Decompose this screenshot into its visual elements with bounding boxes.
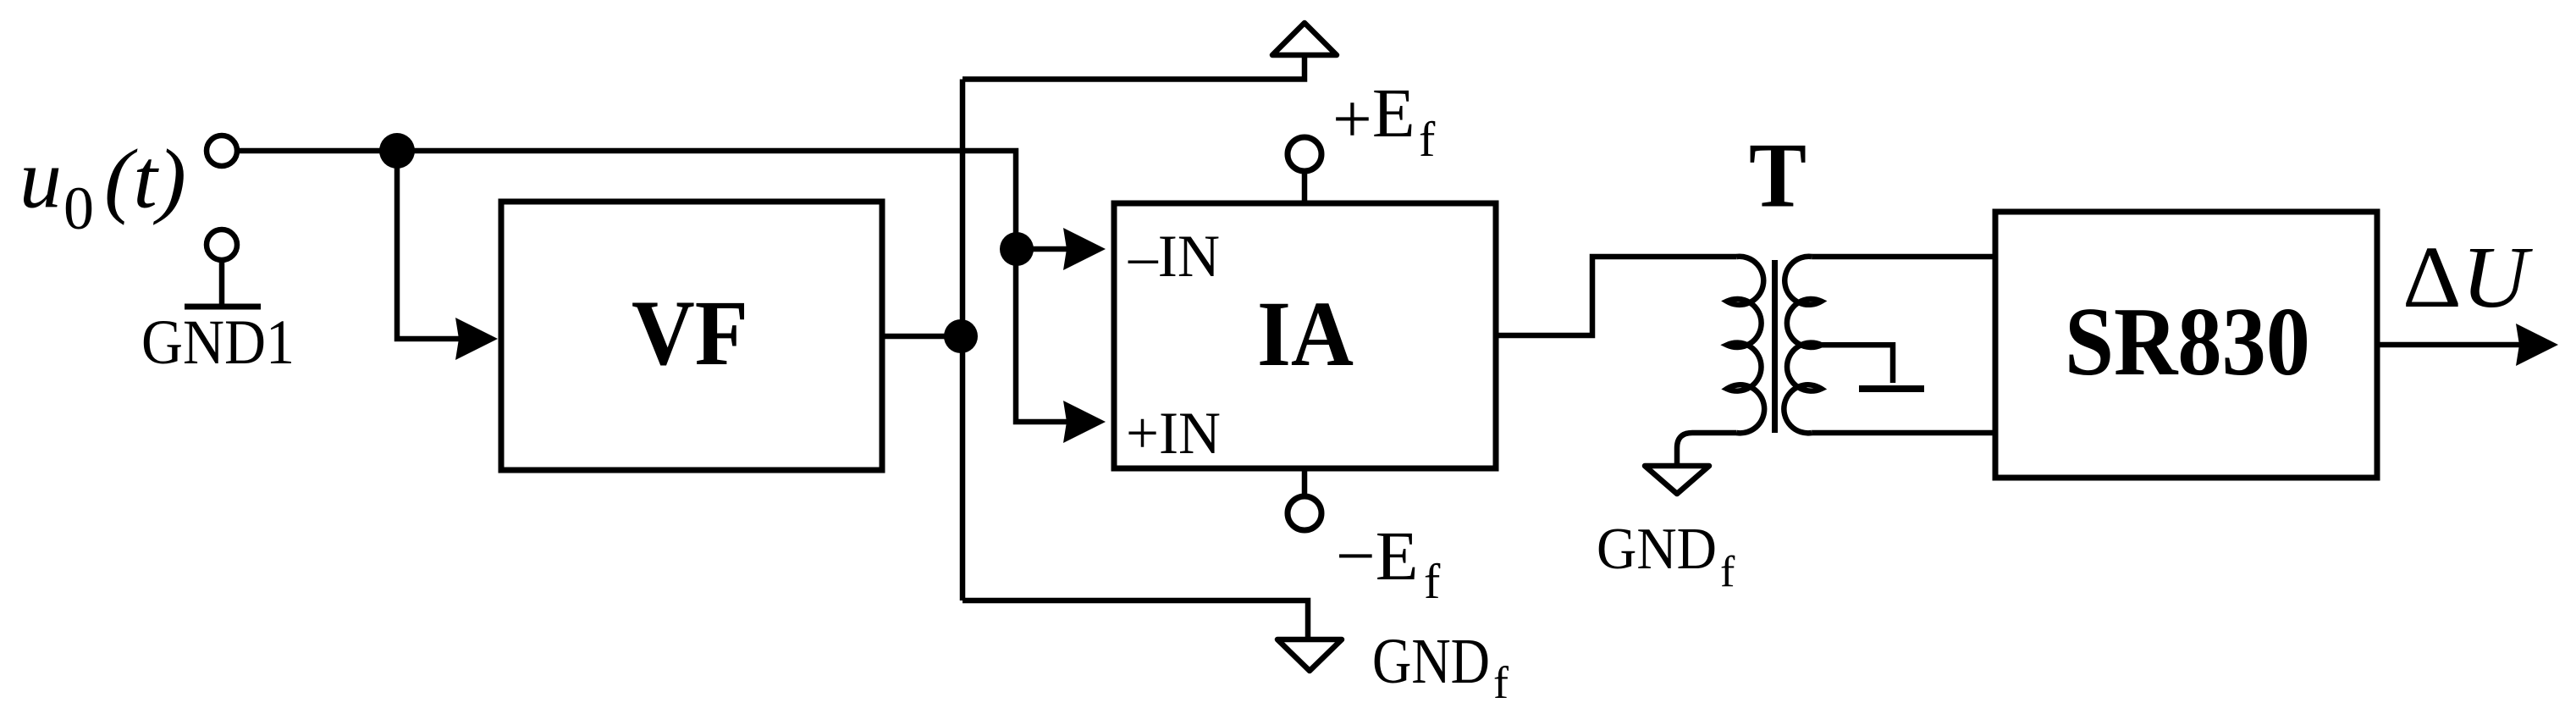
svg-text:0: 0 (63, 174, 94, 242)
svg-text:IA: IA (1257, 282, 1354, 385)
svg-text:GND: GND (1372, 626, 1490, 697)
svg-text:–IN: –IN (1128, 224, 1220, 290)
svg-text:+E: +E (1332, 74, 1415, 158)
svg-text:f: f (1424, 554, 1441, 609)
svg-text:GND1: GND1 (141, 307, 295, 378)
svg-text:SR830: SR830 (2065, 288, 2310, 396)
svg-text:f: f (1493, 657, 1509, 708)
svg-text:f: f (1419, 112, 1436, 167)
svg-text:ΔU: ΔU (2402, 229, 2533, 326)
svg-text:u: u (19, 132, 62, 226)
svg-text:VF: VF (632, 281, 748, 385)
svg-text:GND: GND (1597, 517, 1717, 582)
svg-text:f: f (1720, 548, 1735, 596)
svg-text:+IN: +IN (1126, 401, 1221, 467)
svg-text:T: T (1749, 125, 1807, 227)
svg-text:−E: −E (1336, 517, 1419, 595)
svg-text:(t): (t) (104, 132, 186, 226)
